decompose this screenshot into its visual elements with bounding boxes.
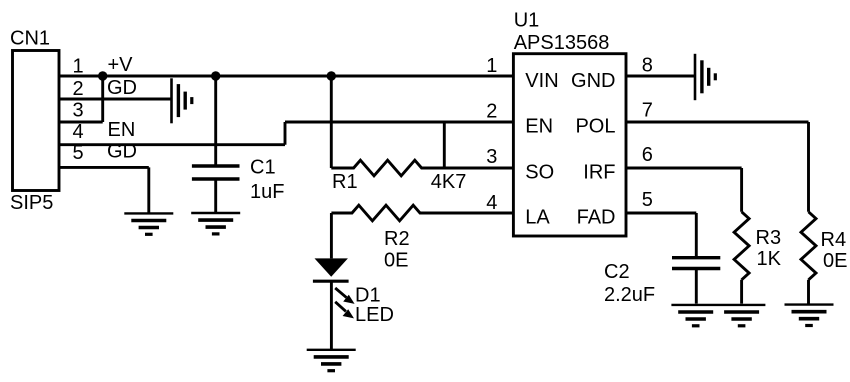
svg-text:VIN: VIN: [525, 70, 558, 92]
svg-text:GND: GND: [571, 70, 615, 92]
svg-text:2: 2: [486, 101, 497, 123]
svg-text:3: 3: [486, 146, 497, 168]
svg-text:7: 7: [642, 100, 653, 122]
svg-text:4: 4: [486, 192, 497, 214]
svg-text:R3: R3: [756, 227, 782, 249]
svg-text:1: 1: [486, 55, 497, 77]
svg-text:R2: R2: [384, 228, 410, 250]
svg-text:2.2uF: 2.2uF: [604, 284, 655, 306]
svg-text:GD: GD: [107, 77, 137, 99]
svg-text:1: 1: [73, 56, 84, 78]
svg-text:C1: C1: [250, 157, 276, 179]
svg-text:EN: EN: [525, 116, 553, 138]
svg-text:5: 5: [642, 189, 653, 211]
svg-text:+V: +V: [108, 54, 134, 76]
svg-text:6: 6: [642, 144, 653, 166]
svg-text:5: 5: [73, 142, 84, 164]
svg-text:1uF: 1uF: [250, 181, 284, 203]
svg-text:1K: 1K: [757, 248, 782, 270]
svg-text:POL: POL: [575, 116, 615, 138]
svg-text:8: 8: [642, 55, 653, 77]
svg-text:EN: EN: [108, 119, 136, 141]
svg-text:LED: LED: [355, 304, 394, 326]
svg-text:GD: GD: [107, 140, 137, 162]
svg-text:C2: C2: [604, 261, 630, 283]
svg-text:4K7: 4K7: [431, 171, 467, 193]
svg-text:R1: R1: [332, 171, 358, 193]
svg-text:APS13568: APS13568: [514, 32, 610, 54]
svg-text:LA: LA: [525, 207, 550, 229]
svg-text:CN1: CN1: [10, 28, 50, 50]
svg-text:R4: R4: [821, 229, 847, 251]
svg-text:FAD: FAD: [577, 207, 616, 229]
svg-text:SO: SO: [525, 162, 554, 184]
svg-text:SIP5: SIP5: [10, 192, 53, 214]
svg-text:4: 4: [73, 121, 84, 143]
svg-text:3: 3: [73, 100, 84, 122]
svg-text:0E: 0E: [384, 250, 408, 272]
svg-text:U1: U1: [514, 10, 540, 32]
svg-text:0E: 0E: [823, 250, 847, 272]
svg-text:IRF: IRF: [583, 162, 615, 184]
svg-text:2: 2: [73, 78, 84, 100]
